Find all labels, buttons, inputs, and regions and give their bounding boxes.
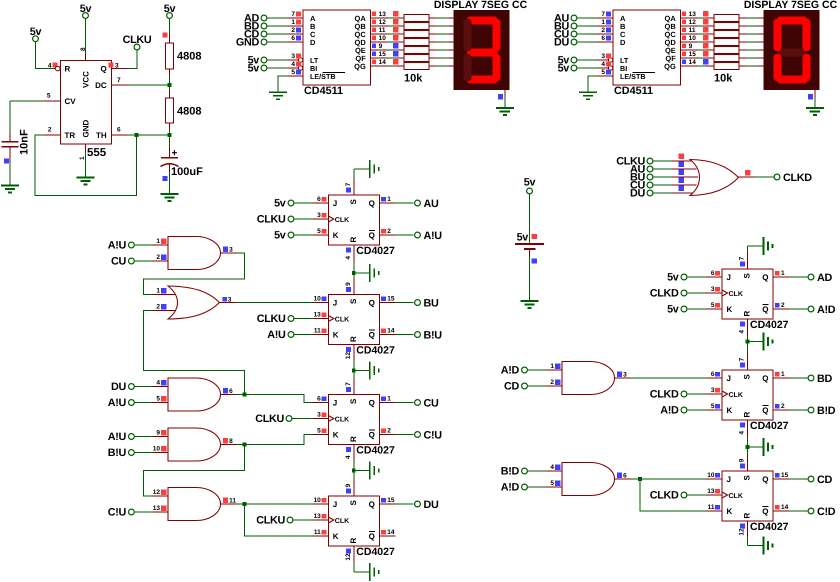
svg-text:K: K <box>333 532 339 541</box>
svg-text:A!D: A!D <box>817 304 836 316</box>
timer U1 555 <box>44 47 128 160</box>
terminal CLKU (U4 CLK) <box>257 313 313 325</box>
wire R/S interstage to ground (U4-U5) <box>354 361 370 378</box>
svg-text:DISPLAY 7SEG CC: DISPLAY 7SEG CC <box>434 0 528 11</box>
power terminal 5v (U7 J) <box>667 272 706 284</box>
ground <box>806 108 824 115</box>
svg-text:5v: 5v <box>524 177 536 189</box>
svg-text:VCC: VCC <box>82 71 91 88</box>
and-gate G7 (B!D.A!D) <box>546 463 631 496</box>
svg-text:5v: 5v <box>558 63 570 75</box>
ground <box>269 92 287 99</box>
svg-text:GND: GND <box>236 37 260 49</box>
svg-text:3: 3 <box>601 53 605 60</box>
svg-text:Q: Q <box>369 431 375 440</box>
terminal A!D (G7.5) <box>501 482 546 494</box>
svg-text:R: R <box>349 237 358 243</box>
svg-text:AD: AD <box>817 272 832 284</box>
svg-text:5: 5 <box>47 93 51 100</box>
svg-text:14: 14 <box>379 59 387 66</box>
input terminal CU <box>554 29 597 41</box>
terminal B!U (G4.10) <box>108 447 152 459</box>
node state square <box>4 159 9 164</box>
svg-text:TR: TR <box>65 131 76 140</box>
7-segment display DISPLAY 7SEG CC (digit) <box>454 10 510 90</box>
wire junction <box>746 340 750 344</box>
svg-text:S: S <box>743 374 752 380</box>
svg-text:6: 6 <box>117 127 121 134</box>
svg-text:100uF: 100uF <box>171 166 203 178</box>
ground <box>579 92 597 99</box>
wire R2 to 100uF (TH node) <box>169 131 171 157</box>
svg-text:2: 2 <box>781 302 785 309</box>
terminal CLKU (U5 CLK) <box>255 413 312 425</box>
ground (under 555) <box>77 178 95 185</box>
wire 555 DC to resistor divider <box>128 84 170 86</box>
svg-text:5: 5 <box>291 69 295 76</box>
wire R pin to ground (U9) <box>748 538 764 546</box>
and-gate G3 (DU.A!U) <box>152 378 237 411</box>
ground <box>370 264 379 282</box>
svg-text:8: 8 <box>229 438 233 445</box>
wire junction <box>352 469 356 473</box>
input terminal GND <box>236 37 287 49</box>
wire 5v to 555 R pin <box>36 42 56 69</box>
svg-text:CD4027: CD4027 <box>356 445 395 457</box>
svg-text:3: 3 <box>115 63 119 70</box>
terminal A!U (G4.9) <box>108 431 152 443</box>
svg-text:1: 1 <box>601 19 605 26</box>
output terminal B!U <box>396 329 443 341</box>
svg-text:C!D: C!D <box>817 506 836 518</box>
svg-text:10k: 10k <box>404 73 423 85</box>
svg-text:13: 13 <box>379 11 387 18</box>
wire battery to ground <box>529 256 531 301</box>
svg-text:5v: 5v <box>274 198 286 210</box>
svg-text:1: 1 <box>781 371 785 378</box>
svg-text:CLK: CLK <box>729 392 743 399</box>
terminal CU (G1.2) <box>111 256 152 268</box>
svg-text:6: 6 <box>317 395 321 402</box>
power terminal 5v <box>248 55 287 67</box>
power terminal 5v (battery) <box>524 177 536 194</box>
resistor RN2 10k element 1 <box>714 15 764 22</box>
svg-text:3: 3 <box>317 411 321 418</box>
svg-text:4808: 4808 <box>177 51 201 63</box>
wire G2 output to U4 J <box>237 302 312 304</box>
node state square <box>498 94 503 99</box>
svg-text:CLK: CLK <box>335 518 349 525</box>
node state square <box>532 258 537 263</box>
svg-text:5: 5 <box>711 302 715 309</box>
svg-text:D: D <box>310 38 316 47</box>
resistor RN2 10k element 7 <box>714 63 764 70</box>
ground (below U9) <box>764 537 773 555</box>
or-gate G2 <box>152 286 237 319</box>
svg-text:2: 2 <box>550 379 554 386</box>
svg-text:A!U: A!U <box>267 329 286 341</box>
svg-text:A!U: A!U <box>108 240 127 252</box>
input terminal AU (OR gate U2) <box>630 164 672 176</box>
svg-text:B!D: B!D <box>501 466 520 478</box>
output terminal DU <box>396 499 439 511</box>
svg-text:12: 12 <box>689 19 697 26</box>
svg-text:C!U: C!U <box>424 429 443 441</box>
resistor RN1 10k element 6 <box>404 55 454 62</box>
svg-text:12: 12 <box>345 351 352 359</box>
wire OR output to CLKD terminal <box>755 176 774 178</box>
svg-text:CD4027: CD4027 <box>356 546 395 558</box>
svg-text:CLKU: CLKU <box>256 515 285 527</box>
wire junction <box>168 133 172 137</box>
ground (below U6) <box>370 563 379 581</box>
svg-text:1: 1 <box>156 288 160 295</box>
wire 555 TH to divider node <box>128 134 170 136</box>
wire display common to ground <box>504 90 506 108</box>
wire junction <box>135 133 139 137</box>
svg-text:9: 9 <box>739 458 746 462</box>
svg-text:R: R <box>349 436 358 442</box>
svg-text:9: 9 <box>689 43 693 50</box>
svg-text:4: 4 <box>345 256 352 260</box>
svg-text:11: 11 <box>689 27 696 34</box>
terminal A!U (U4 K) <box>267 329 312 341</box>
output terminal CU <box>396 397 439 409</box>
wire junction <box>638 477 642 481</box>
resistor RN2 10k element 6 <box>714 55 764 62</box>
resistor RN2 10k element 3 <box>714 31 764 38</box>
terminal CLKU (555 output) <box>123 34 152 50</box>
svg-text:3: 3 <box>317 212 321 219</box>
svg-text:9: 9 <box>345 282 352 286</box>
svg-text:CLK: CLK <box>729 493 743 500</box>
ground (above U7) <box>764 237 773 255</box>
svg-text:R: R <box>65 65 71 74</box>
terminal C!U (G5.13) <box>108 507 152 519</box>
svg-text:3: 3 <box>623 372 627 379</box>
resistor R1 4808 <box>166 43 202 77</box>
ground <box>370 462 379 480</box>
output terminal C!D <box>789 506 835 518</box>
resistor RN1 10k element 1 <box>404 15 454 22</box>
input terminal AD <box>244 13 287 25</box>
svg-text:K: K <box>727 507 733 516</box>
svg-text:12: 12 <box>153 489 161 496</box>
svg-text:Q: Q <box>762 305 768 314</box>
jk flip-flop U6 CD4027 (up counter bit D) <box>312 480 395 563</box>
svg-text:12: 12 <box>379 19 387 26</box>
svg-text:J: J <box>727 475 731 484</box>
svg-text:CLK: CLK <box>335 217 349 224</box>
svg-text:LE/STB: LE/STB <box>620 72 646 81</box>
svg-text:1: 1 <box>387 395 391 402</box>
svg-text:S: S <box>349 398 358 404</box>
svg-text:4: 4 <box>739 431 746 435</box>
ground (under 10nF) <box>1 186 19 193</box>
svg-text:5: 5 <box>156 396 160 403</box>
svg-text:7: 7 <box>345 382 352 386</box>
wire LE/STB to ground <box>278 76 287 92</box>
svg-text:S: S <box>349 500 358 506</box>
svg-text:J: J <box>727 374 731 383</box>
input terminal DU <box>554 37 597 49</box>
and-gate G6 (A!D.CD) <box>546 362 631 395</box>
power terminal 5v <box>558 63 597 75</box>
svg-text:DU: DU <box>554 37 569 49</box>
ground (under 100uF) <box>161 194 179 201</box>
svg-text:CLK: CLK <box>729 291 743 298</box>
svg-text:CLKU: CLKU <box>257 313 286 325</box>
svg-text:R: R <box>743 513 752 519</box>
svg-text:2: 2 <box>387 228 391 235</box>
output terminal AU <box>396 198 439 210</box>
svg-text:Q: Q <box>100 65 106 74</box>
svg-text:Q: Q <box>369 532 375 541</box>
jk flip-flop U8 CD4027 (down counter bit B) <box>706 354 789 437</box>
wire 100uF to ground <box>169 172 171 194</box>
resistor RN1 10k element 2 <box>404 23 454 30</box>
ground <box>370 362 379 380</box>
svg-text:DU: DU <box>630 188 645 200</box>
svg-text:2: 2 <box>48 127 52 134</box>
wire junction <box>168 83 172 87</box>
resistor RN1 10k element 7 <box>404 63 454 70</box>
svg-text:CD4027: CD4027 <box>750 420 789 432</box>
svg-text:4: 4 <box>345 455 352 459</box>
IC U2 CD4511 BCD to 7-seg decoder <box>597 10 714 97</box>
wire 5v to battery <box>529 195 531 244</box>
ground <box>764 333 773 351</box>
wire display common to ground <box>814 90 816 108</box>
output terminal A!U <box>396 230 443 242</box>
svg-text:CD4511: CD4511 <box>614 85 653 97</box>
svg-text:5: 5 <box>711 403 715 410</box>
jk flip-flop U3 CD4027 (up counter bit A) <box>312 179 395 262</box>
svg-text:J: J <box>727 273 731 282</box>
svg-text:4: 4 <box>739 330 746 334</box>
svg-text:7: 7 <box>291 11 295 18</box>
svg-text:10: 10 <box>707 472 715 479</box>
svg-text:7: 7 <box>345 182 352 186</box>
svg-text:2: 2 <box>156 304 160 311</box>
resistor RN2 10k element 5 <box>714 47 764 54</box>
svg-text:3: 3 <box>228 296 232 303</box>
svg-text:13: 13 <box>314 311 322 318</box>
svg-text:GND: GND <box>82 120 91 138</box>
power terminal 5v (555 VCC) <box>80 3 92 18</box>
capacitor C1 10nF <box>2 129 31 161</box>
capacitor C2 100uF (electrolytic) <box>161 148 204 178</box>
svg-text:5: 5 <box>601 69 605 76</box>
wire G7 output to U9 K <box>640 479 706 511</box>
svg-text:B!D: B!D <box>817 405 836 417</box>
svg-text:CU: CU <box>424 397 439 409</box>
resistor RN2 10k element 2 <box>714 23 764 30</box>
terminal CLKD (U9 CLK) <box>650 490 706 502</box>
terminal CLKD (U8 CLK) <box>650 389 706 401</box>
svg-text:6: 6 <box>317 196 321 203</box>
svg-text:R: R <box>349 538 358 544</box>
svg-text:3: 3 <box>711 286 715 293</box>
wire G2 input 2 from G3 output node <box>144 311 245 395</box>
input terminal BU (OR gate U2) <box>630 172 672 184</box>
svg-text:7: 7 <box>739 256 746 260</box>
wire G7 output to U9 J <box>631 478 707 480</box>
wire LE/STB to ground <box>588 76 597 92</box>
svg-text:1: 1 <box>387 196 391 203</box>
svg-text:5: 5 <box>550 480 554 487</box>
terminal B!D (G7.4) <box>501 466 546 478</box>
svg-text:J: J <box>333 299 337 308</box>
jk flip-flop U9 CD4027 (down counter bit C) <box>706 455 789 538</box>
svg-text:14: 14 <box>387 529 395 536</box>
svg-text:QG: QG <box>354 62 366 71</box>
resistor RN2 10k element 4 <box>714 39 764 46</box>
svg-text:DU: DU <box>424 499 439 511</box>
svg-text:4: 4 <box>550 464 554 471</box>
svg-text:Q: Q <box>369 331 375 340</box>
jk flip-flop U4 CD4027 (up counter bit B) <box>312 278 395 361</box>
svg-text:S: S <box>743 273 752 279</box>
svg-text:1: 1 <box>291 19 295 26</box>
svg-text:3: 3 <box>229 247 233 254</box>
svg-text:A!D: A!D <box>660 405 679 417</box>
resistor RN1 10k element 4 <box>404 39 454 46</box>
svg-text:6: 6 <box>711 270 715 277</box>
terminal CLKU (U3 CLK) <box>257 214 313 226</box>
svg-text:B!U: B!U <box>108 447 127 459</box>
resistor R2 4808 <box>166 90 202 131</box>
wire 5v to resistor R1 <box>169 19 171 43</box>
wire TR feedback loop (TR to TH node) <box>35 135 137 195</box>
svg-text:6: 6 <box>601 35 605 42</box>
wire G1 output to G2 input 1 <box>144 253 245 295</box>
output terminal B!D <box>789 405 835 417</box>
wire junction <box>243 502 247 506</box>
svg-text:14: 14 <box>781 504 789 511</box>
terminal CLKD (U7 CLK) <box>650 288 706 300</box>
svg-text:5: 5 <box>317 228 321 235</box>
svg-text:CLKD: CLKD <box>650 288 679 300</box>
ground <box>496 108 514 115</box>
output terminal A!D <box>789 304 835 316</box>
wire G6 output to U8 J <box>631 377 707 379</box>
wire G5 output to U6 J <box>237 503 313 505</box>
svg-text:10: 10 <box>153 446 161 453</box>
wire 555 GND to ground <box>85 152 87 177</box>
svg-text:Q: Q <box>762 273 768 282</box>
svg-text:5v: 5v <box>248 63 260 75</box>
resistor RN1 10k element 3 <box>404 31 454 38</box>
svg-text:AU: AU <box>424 198 439 210</box>
ground (battery) <box>521 301 539 308</box>
wire R pin to ground (U6) <box>354 563 370 573</box>
wire 5v to 555 VCC <box>85 19 87 52</box>
svg-text:QG: QG <box>664 62 676 71</box>
svg-text:Q: Q <box>369 231 375 240</box>
svg-text:S: S <box>743 475 752 481</box>
svg-text:13: 13 <box>707 488 715 495</box>
svg-text:5: 5 <box>317 427 321 434</box>
wire junction <box>243 443 247 447</box>
svg-text:11: 11 <box>314 529 321 536</box>
input terminal BU <box>554 21 597 33</box>
output terminal CD <box>789 474 832 486</box>
svg-text:CV: CV <box>65 97 77 106</box>
svg-text:4: 4 <box>291 61 295 68</box>
and-gate G4 (A!U.B!U) <box>152 428 237 461</box>
svg-text:6: 6 <box>711 371 715 378</box>
input terminal BD <box>244 21 287 33</box>
svg-text:1: 1 <box>156 238 160 245</box>
node state square (CLKD) <box>745 170 750 175</box>
svg-text:3: 3 <box>291 53 295 60</box>
svg-text:2: 2 <box>156 254 160 261</box>
svg-text:11: 11 <box>708 504 715 511</box>
svg-text:R: R <box>349 336 358 342</box>
svg-text:Q: Q <box>762 507 768 516</box>
svg-text:2: 2 <box>781 403 785 410</box>
svg-text:5v: 5v <box>667 272 679 284</box>
svg-text:Q: Q <box>369 399 375 408</box>
svg-text:12: 12 <box>345 553 352 561</box>
svg-text:10k: 10k <box>714 73 733 85</box>
svg-text:A!D: A!D <box>501 365 520 377</box>
svg-text:Q: Q <box>762 374 768 383</box>
svg-text:8: 8 <box>80 47 87 51</box>
wire G5 output to U6 K <box>245 504 313 536</box>
svg-text:A!U: A!U <box>108 431 127 443</box>
ground (above U3) <box>370 160 379 178</box>
svg-text:R: R <box>743 311 752 317</box>
resistor RN1 10k element 5 <box>404 47 454 54</box>
svg-text:Q: Q <box>369 299 375 308</box>
svg-text:6: 6 <box>623 473 627 480</box>
svg-text:13: 13 <box>153 505 161 512</box>
power terminal 5v <box>248 63 287 75</box>
svg-text:CD4027: CD4027 <box>750 521 789 533</box>
svg-text:A!U: A!U <box>424 230 443 242</box>
svg-text:10: 10 <box>379 35 387 42</box>
svg-text:K: K <box>727 406 733 415</box>
svg-text:C!U: C!U <box>108 507 127 519</box>
wire R/S interstage to ground (U7-U8) <box>748 336 764 354</box>
svg-text:DISPLAY 7SEG CC: DISPLAY 7SEG CC <box>744 0 838 11</box>
svg-text:3: 3 <box>711 387 715 394</box>
7-segment display DISPLAY 7SEG CC (digit) <box>764 10 820 90</box>
output terminal BU <box>396 297 439 309</box>
input terminal CD <box>244 29 287 41</box>
node state square <box>163 176 168 181</box>
svg-text:B!U: B!U <box>424 329 443 341</box>
wire CV to 10nF capacitor <box>10 101 44 132</box>
svg-text:4808: 4808 <box>177 106 201 118</box>
svg-text:10: 10 <box>314 497 322 504</box>
svg-text:CLK: CLK <box>335 416 349 423</box>
svg-text:4: 4 <box>601 61 605 68</box>
output terminal AD <box>789 272 832 284</box>
wire 10nF to ground <box>9 162 11 186</box>
svg-text:11: 11 <box>314 327 321 334</box>
input terminal DU (OR gate U2) <box>630 188 672 200</box>
output terminal BD <box>789 373 832 385</box>
wire R/S interstage to ground (U5-U6) <box>354 461 370 480</box>
svg-text:6: 6 <box>229 388 233 395</box>
or-gate U2 (5-input OR, clock ripple) <box>672 154 755 196</box>
jk flip-flop U5 CD4027 (up counter bit C) <box>312 378 395 461</box>
svg-text:9: 9 <box>156 430 160 437</box>
wire S pin to ground (U7) <box>748 246 764 253</box>
